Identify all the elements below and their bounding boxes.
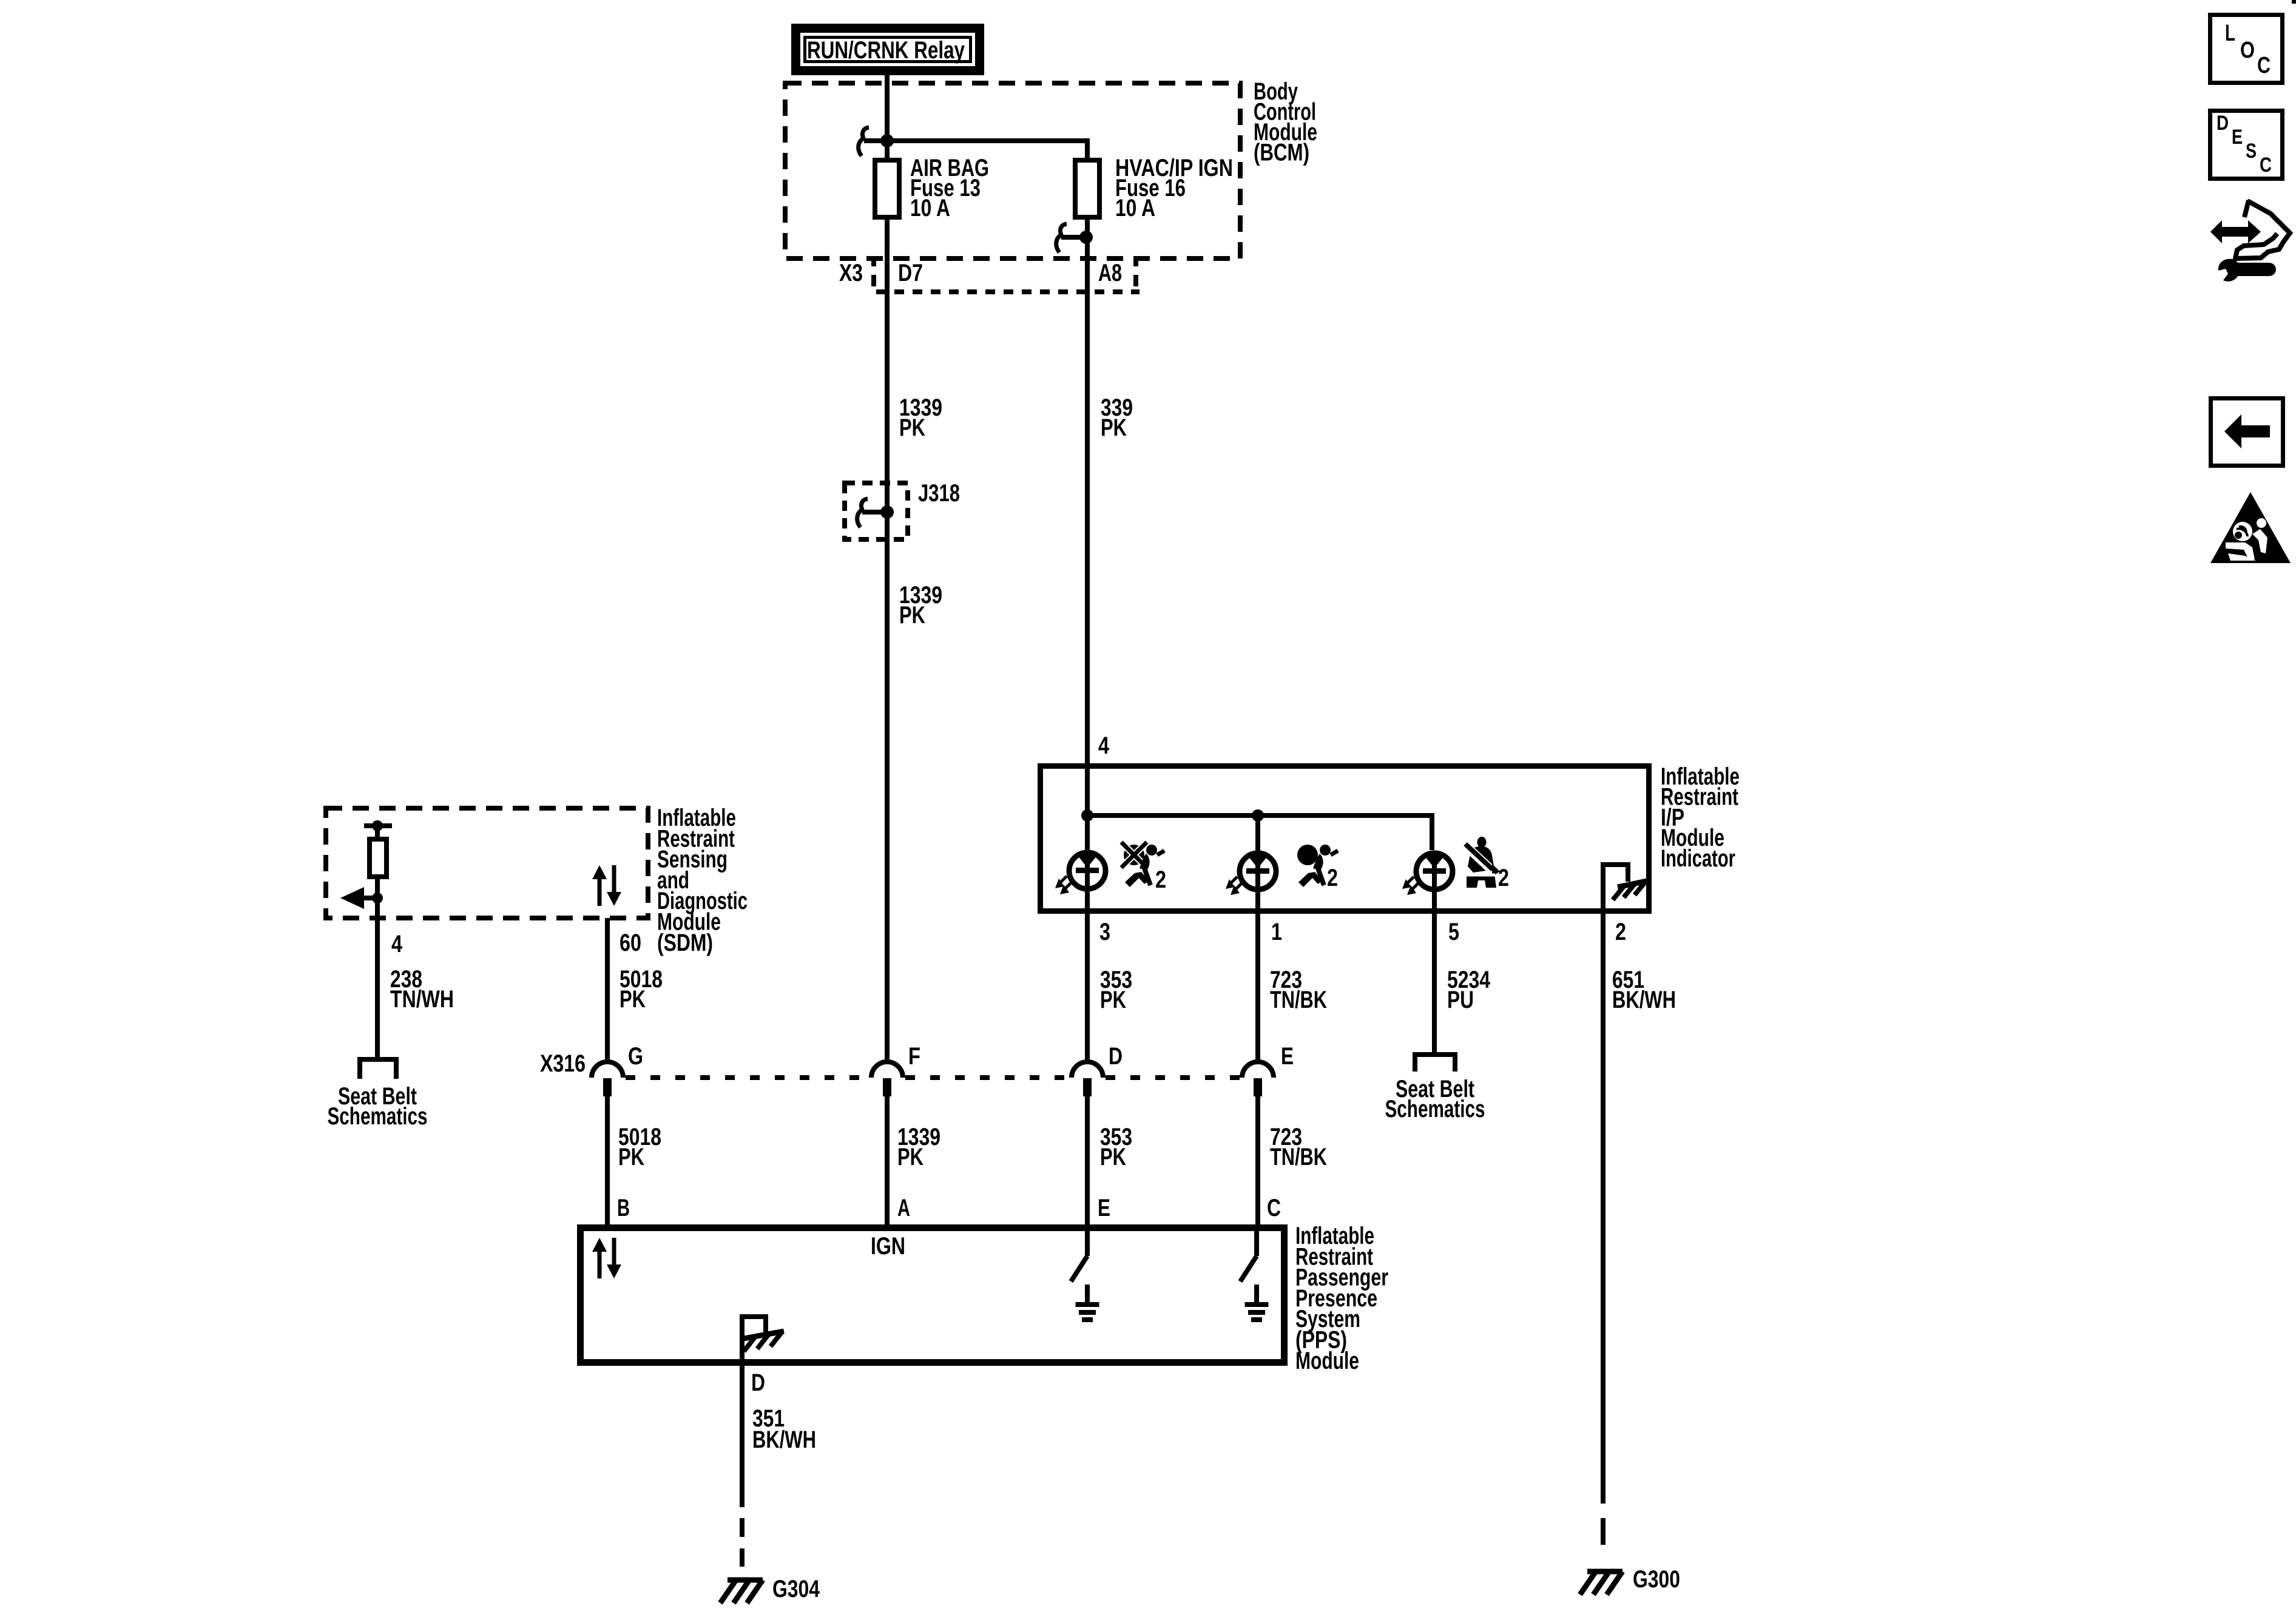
- label: PPS module name: [1295, 1223, 1388, 1374]
- module: Inflatable Restraint Passenger Presence System (PPS) Module box: [581, 1228, 1285, 1363]
- svg-text:2: 2: [1498, 865, 1509, 891]
- switch: PPS sensor switch at pin E with internal ground: [1071, 1227, 1099, 1322]
- connector X316 dotted line: [626, 1075, 1240, 1080]
- pin A8 label: [1098, 260, 1122, 286]
- node: bus junction at lamp 2: [1252, 809, 1264, 822]
- wire: indicator internal supply bus: [1087, 767, 1432, 850]
- wire: circuit 1339 PK splice J318 to connector X316-F: [885, 512, 890, 1062]
- svg-text:Schematics: Schematics: [328, 1103, 428, 1130]
- pin 5 label: [1448, 919, 1459, 945]
- wire: RUN/CRNK relay output to AIR BAG fuse: [885, 75, 890, 160]
- pin 2 label: [1615, 919, 1626, 945]
- label: G300: [1633, 1566, 1680, 1593]
- wire: circuit 353 PK X316-D to PPS pin E: [1085, 1096, 1090, 1229]
- fuse F16: HVAC/IP IGN Fuse 16 10 A: [1075, 160, 1099, 217]
- svg-text:S: S: [2246, 140, 2257, 163]
- arrow: SDM internal reference arrow: [340, 887, 377, 909]
- label: Inflatable Restraint I/P Module Indicator: [1661, 763, 1740, 872]
- label: HVAC/IP IGN Fuse 16 10 A: [1115, 155, 1233, 221]
- icon: air bag caution triangle: [2210, 492, 2291, 563]
- icon: wiring repair (arrow and wrench): [2210, 200, 2290, 282]
- pin E label (PPS): [1098, 1195, 1110, 1221]
- module: Inflatable Restraint Sensing and Diagnostic Module (SDM) dashed outline: [326, 808, 648, 918]
- svg-text:TN/BK: TN/BK: [1270, 987, 1327, 1013]
- label: wire 651 BK/WH: [1612, 967, 1676, 1013]
- label: J318: [918, 480, 960, 507]
- svg-text:BK/WH: BK/WH: [1612, 987, 1676, 1013]
- svg-text:60: 60: [620, 930, 641, 956]
- off-page reference: seat belt schematics (right): [1415, 1055, 1455, 1072]
- svg-text:2: 2: [1615, 919, 1626, 945]
- wire: circuit 5018 PK X316-G to PPS pin B: [605, 1096, 610, 1229]
- indicator lamp DS1 (LED symbol): [1055, 850, 1106, 894]
- label: wire 5018 PK (upper): [620, 966, 663, 1013]
- module: Inflatable Restraint I/P Module Indicator box: [1041, 766, 1649, 911]
- pin C label: [1267, 1195, 1281, 1221]
- splice J318 dashed box: [845, 483, 908, 539]
- svg-text:O: O: [2240, 38, 2255, 63]
- svg-text:3: 3: [1099, 919, 1110, 945]
- connector X316 terminal D: [1072, 1062, 1103, 1096]
- label: wire 5234 PU: [1447, 967, 1491, 1013]
- ground G300: [1580, 1571, 1622, 1595]
- svg-text:G304: G304: [772, 1576, 820, 1602]
- svg-text:TN/BK: TN/BK: [1270, 1144, 1327, 1170]
- svg-text:J318: J318: [918, 480, 960, 507]
- label: wire 5018 PK (lower): [618, 1124, 661, 1170]
- svg-text:PK: PK: [1100, 987, 1126, 1013]
- svg-text:PK: PK: [1101, 414, 1127, 441]
- label: X316: [540, 1050, 586, 1077]
- node: SDM internal junction: [372, 893, 383, 903]
- svg-text:E: E: [1098, 1195, 1110, 1221]
- svg-text:B: B: [617, 1195, 630, 1221]
- svg-text:PK: PK: [899, 414, 925, 441]
- svg-text:D7: D7: [898, 260, 923, 286]
- svg-text:E: E: [1281, 1043, 1294, 1070]
- svg-text:Module: Module: [1295, 1348, 1359, 1374]
- icon: DESC legend box: [2210, 111, 2283, 179]
- symbol: PPS bidirectional signal arrows: [592, 1238, 621, 1278]
- wire: circuit 339 PK fuse16 to I/P indicator pin 4: [1085, 217, 1090, 767]
- wire: circuit 351 BK/WH PPS pin D to G304: [740, 1362, 745, 1507]
- svg-text:D: D: [2217, 112, 2229, 135]
- svg-text:(SDM): (SDM): [657, 930, 713, 956]
- svg-text:G300: G300: [1633, 1566, 1680, 1593]
- svg-text:PU: PU: [1447, 987, 1474, 1013]
- wire: dashed continuation to G300: [1601, 1518, 1606, 1545]
- svg-text:PK: PK: [897, 1144, 923, 1170]
- relay K: RUN/CRNK Relay box: [796, 29, 980, 71]
- pin D7 label: [898, 260, 923, 286]
- svg-text:2: 2: [1155, 866, 1166, 893]
- svg-text:(BCM): (BCM): [1254, 140, 1309, 166]
- label: Seat Belt Schematics (right): [1385, 1076, 1485, 1122]
- off-page reference: seat belt schematics (left): [360, 1059, 396, 1079]
- label: wire 723 TN/BK (lower): [1270, 1124, 1327, 1170]
- svg-text:X3: X3: [839, 260, 863, 286]
- connector X316 terminal G: [592, 1062, 623, 1096]
- icon: passenger air bag OFF telltale: [1121, 842, 1166, 893]
- svg-text:A8: A8: [1098, 260, 1122, 286]
- svg-text:F: F: [908, 1043, 920, 1070]
- label: Seat Belt Schematics (left): [328, 1083, 428, 1130]
- svg-text:Schematics: Schematics: [1385, 1096, 1485, 1122]
- wire: BCM junction to HVAC/IP IGN fuse: [887, 141, 1087, 160]
- icon: fasten seat belt telltale: [1464, 837, 1509, 891]
- node: bus junction at lamp 1: [1081, 809, 1093, 822]
- current-tap symbol at BCM junction: [859, 127, 883, 156]
- ground G304: [720, 1580, 763, 1603]
- svg-text:X316: X316: [540, 1050, 586, 1077]
- icon: air bag telltale: [1297, 845, 1338, 891]
- label: G304: [772, 1576, 820, 1602]
- icon: back arrow legend box: [2211, 399, 2283, 466]
- svg-text:TN/WH: TN/WH: [390, 986, 454, 1013]
- mark: page corner tick: [2292, 0, 2296, 4]
- ground: PPS internal chassis ground (pin D): [742, 1317, 784, 1362]
- terminal F label: [908, 1043, 920, 1070]
- ground: indicator module internal ground (pin 2): [1603, 865, 1647, 911]
- label: wire 351 BK/WH: [752, 1405, 816, 1453]
- indicator lamp DS2 (LED symbol): [1226, 851, 1276, 895]
- module U1: Body Control Module (BCM) dashed outline: [785, 83, 1240, 258]
- svg-text:L: L: [2225, 21, 2235, 46]
- svg-text:4: 4: [391, 931, 403, 957]
- svg-text:E: E: [2232, 126, 2243, 149]
- terminal D label: [1109, 1043, 1123, 1070]
- svg-text:IGN: IGN: [871, 1233, 905, 1260]
- wire: circuit 651 BK/WH indicator pin2 to G300: [1601, 911, 1606, 1504]
- wire: circuit 353 PK lamp1 to X316-D: [1085, 890, 1090, 1062]
- svg-text:PK: PK: [899, 602, 925, 629]
- label: wire 723 TN/BK (upper): [1270, 967, 1327, 1013]
- svg-text:G: G: [628, 1043, 643, 1070]
- terminal G label: [628, 1043, 643, 1070]
- label: SDM module name: [657, 805, 748, 956]
- connector X3: dashes right: [1133, 260, 1138, 286]
- wire: circuit 723 TN/BK X316-E to PPS pin C: [1255, 1096, 1260, 1229]
- wire: bus to lamp2: [1255, 815, 1260, 852]
- svg-text:PK: PK: [1100, 1144, 1126, 1170]
- icon: LOC legend box: [2210, 15, 2283, 83]
- wire: circuit 1339 PK fuse13 to splice J318: [885, 217, 890, 512]
- connector X316 terminal F: [871, 1062, 903, 1096]
- label: AIR BAG Fuse 13 10 A: [910, 155, 989, 221]
- resistor R in SDM: [364, 820, 392, 900]
- label: wire 238 TN/WH: [390, 966, 454, 1013]
- fuse F13: AIR BAG Fuse 13 10 A: [875, 160, 899, 217]
- wire: dashed continuation to G304: [740, 1518, 745, 1567]
- label: X3: [839, 260, 863, 286]
- label: wire 1339 PK (to PPS): [897, 1124, 940, 1170]
- svg-text:A: A: [897, 1195, 910, 1221]
- svg-text:1: 1: [1271, 919, 1282, 945]
- label: Body Control Module (BCM): [1254, 78, 1317, 166]
- svg-text:10 A: 10 A: [910, 195, 950, 221]
- wire: bus to lamp1: [1085, 815, 1090, 852]
- pin 3 label: [1099, 919, 1110, 945]
- svg-text:10 A: 10 A: [1115, 195, 1155, 221]
- label: wire 339 PK: [1101, 394, 1133, 441]
- terminal E label: [1281, 1043, 1294, 1070]
- svg-text:C: C: [2257, 53, 2271, 78]
- svg-text:PK: PK: [620, 986, 646, 1013]
- current-tap symbol at fuse 16 output: [1056, 224, 1085, 252]
- svg-text:RUN/CRNK Relay: RUN/CRNK Relay: [807, 37, 965, 64]
- node: BCM internal feed junction: [880, 134, 894, 147]
- pin 4 label (indicator feed): [1098, 732, 1110, 759]
- pin B label: [617, 1195, 630, 1221]
- label: wire 353 PK (upper): [1100, 967, 1132, 1013]
- svg-text:D: D: [1109, 1043, 1123, 1070]
- connector X3: BCM header dashes left: [871, 260, 876, 286]
- wire: circuit 5234 PU lamp3 to seat belt schematics: [1432, 890, 1437, 1055]
- node: splice J318 junction: [880, 505, 894, 519]
- svg-text:4: 4: [1098, 732, 1110, 759]
- svg-text:PK: PK: [618, 1144, 644, 1170]
- pin 4 label (SDM): [391, 931, 403, 957]
- node: fuse 16 output junction: [1079, 231, 1093, 244]
- svg-text:D: D: [751, 1369, 765, 1396]
- svg-text:2: 2: [1327, 865, 1338, 891]
- connector X316 terminal E: [1242, 1062, 1274, 1096]
- switch: PPS sensor switch at pin C with internal ground: [1240, 1227, 1269, 1322]
- svg-text:Indicator: Indicator: [1661, 845, 1735, 872]
- label: wire 1339 PK (upper): [899, 394, 942, 441]
- pin 1 label: [1271, 919, 1282, 945]
- svg-text:C: C: [1267, 1195, 1281, 1221]
- wire: circuit 1339 PK X316-F to PPS pin A: [885, 1096, 890, 1229]
- svg-text:C: C: [2260, 154, 2272, 177]
- wire: circuit 5018 PK SDM pin60 to X316-G: [605, 918, 610, 1062]
- current-tap symbol at splice J318: [857, 499, 883, 527]
- connector X3: bottom dotted edge: [876, 289, 1140, 294]
- label: IGN input: [871, 1233, 905, 1260]
- indicator lamp DS3 (LED symbol): [1402, 851, 1453, 895]
- svg-text:5: 5: [1448, 919, 1459, 945]
- pin 60 label: [620, 930, 641, 956]
- pin A label: [897, 1195, 910, 1221]
- label: wire 353 PK (lower): [1100, 1124, 1132, 1170]
- svg-text:BK/WH: BK/WH: [752, 1426, 816, 1453]
- symbol: SDM bidirectional signal arrows: [592, 865, 621, 906]
- wire: circuit 723 TN/BK lamp2 to X316-E: [1255, 890, 1260, 1062]
- label: wire 1339 PK (lower): [899, 582, 942, 629]
- wire: circuit 238 TN/WH SDM pin4 to seat belt schematics: [375, 900, 380, 1057]
- pin D label (PPS): [751, 1369, 765, 1396]
